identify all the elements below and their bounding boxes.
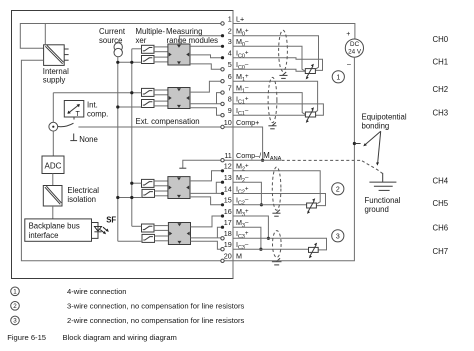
wire M rail from internal supply down to terminal 20 xyxy=(21,60,222,260)
wire G4 to terminal 18 xyxy=(191,237,223,239)
wire G1 to terminal 2 M0+ xyxy=(179,36,222,44)
legend circle 2 3-wire connection xyxy=(11,302,245,311)
functional ground symbol xyxy=(369,173,396,191)
wire terminal 17 M3- jumper to IC3- xyxy=(233,227,263,251)
equipotential bonding dashed line xyxy=(282,160,383,173)
svg-text:L+: L+ xyxy=(236,14,244,23)
SF label xyxy=(106,216,116,225)
mux switch S1 box xyxy=(142,45,168,53)
wire terminal 6 M1+ external xyxy=(233,81,318,112)
svg-text:DC: DC xyxy=(350,41,360,48)
wire terminal 13 M2- jumper to IC2- xyxy=(233,182,263,206)
wire terminal 5 IC0- external xyxy=(233,69,305,71)
legend circle 3 2-wire connection xyxy=(11,316,245,325)
wire terminal 17 jog to G4 xyxy=(217,227,222,238)
mux switch S7 box xyxy=(142,224,168,232)
wire G3 to terminal 12 xyxy=(190,171,223,181)
svg-text:20: 20 xyxy=(224,252,232,261)
cable shield ch2 xyxy=(272,167,281,210)
sensor RT1 resistor xyxy=(305,107,315,123)
cable shield ch0 xyxy=(279,30,288,71)
svg-text:Ext. compensation: Ext. compensation xyxy=(136,117,200,126)
svg-text:10: 10 xyxy=(224,118,232,127)
wire terminal 11 MANA external xyxy=(223,159,282,161)
svg-text:2: 2 xyxy=(13,303,17,310)
svg-text:ground: ground xyxy=(365,205,389,214)
wire terminal 7 M1- external xyxy=(233,93,305,115)
svg-text:Equipotential: Equipotential xyxy=(362,113,407,122)
wire G2 to terminal 9 xyxy=(190,108,223,115)
wire terminal 10 Comp+ external jumper xyxy=(223,127,265,162)
svg-text:source: source xyxy=(99,36,122,45)
svg-text:3: 3 xyxy=(228,37,232,46)
svg-text:14: 14 xyxy=(224,184,232,193)
svg-text:–: – xyxy=(347,61,351,68)
multiplexer label xyxy=(136,27,166,45)
wire v2 to S7 xyxy=(132,225,142,227)
wire terminal 3 M0- external xyxy=(233,46,305,71)
svg-text:Comp+: Comp+ xyxy=(236,118,259,127)
svg-text:12: 12 xyxy=(224,162,232,171)
wire G2 to terminal 8 xyxy=(190,103,223,105)
svg-text:16: 16 xyxy=(224,207,232,216)
svg-text:M: M xyxy=(236,252,242,261)
wire ext compensation line to terminal 10 xyxy=(78,126,222,128)
svg-text:Multiple-: Multiple- xyxy=(136,27,166,36)
svg-text:supply: supply xyxy=(43,76,66,85)
cable shield ch3 xyxy=(273,231,282,258)
svg-text:Electrical: Electrical xyxy=(67,186,99,195)
svg-text:2: 2 xyxy=(228,27,232,36)
svg-text:None: None xyxy=(79,135,98,144)
wire summer to S3 xyxy=(53,91,141,94)
shield ground ch0 xyxy=(279,72,287,78)
mux switch S3 box xyxy=(142,88,168,96)
summer junction circle xyxy=(49,122,58,131)
wire v2 to S1 xyxy=(132,48,142,50)
wire DC supply minus to terminal 20 M xyxy=(223,57,355,261)
wire terminal 8 IC1+ external loop xyxy=(233,104,323,115)
wire v1 to S6 xyxy=(116,196,142,199)
svg-text:Internal: Internal xyxy=(43,67,69,76)
wire int comp contact stub xyxy=(73,117,75,120)
svg-text:Figure 6-15: Figure 6-15 xyxy=(7,333,46,342)
wire L+ terminal 1 to internal supply xyxy=(20,24,222,49)
connection type circle 1 xyxy=(332,71,344,83)
svg-text:Block diagram and wiring diagr: Block diagram and wiring diagram xyxy=(63,333,177,342)
svg-text:2-wire connection, no compensa: 2-wire connection, no compensation for l… xyxy=(67,316,244,325)
wire G1 to terminal 4 xyxy=(190,55,223,58)
wire summer to ADC xyxy=(52,131,54,156)
terminal contact points xyxy=(221,22,224,263)
svg-text:interface: interface xyxy=(29,231,59,240)
svg-text:11: 11 xyxy=(224,151,231,160)
svg-text:bonding: bonding xyxy=(362,121,390,130)
wire terminal 2 M0+ external xyxy=(233,36,319,69)
ADC U2 box xyxy=(42,156,64,174)
module outline box xyxy=(12,11,234,279)
wire internal supply to L+ rail xyxy=(44,24,46,45)
wire G2 to terminal 6 xyxy=(190,81,223,92)
wire bus v1 from current source xyxy=(117,57,119,242)
terminal strip vertical line xyxy=(232,11,234,279)
wire terminal 18 IC3+ external loop xyxy=(233,238,327,250)
svg-text:4-wire connection: 4-wire connection xyxy=(67,287,127,296)
svg-text:6: 6 xyxy=(228,72,232,81)
measuring range module G2 box xyxy=(168,88,190,109)
channel labels CH0-CH7 xyxy=(433,35,449,256)
svg-text:4: 4 xyxy=(228,49,232,58)
none option contact xyxy=(70,134,98,144)
connection type circle 3 xyxy=(332,230,344,242)
electrical isolation label xyxy=(67,186,99,204)
svg-text:CH0: CH0 xyxy=(433,35,449,44)
legend circle 1 4-wire connection xyxy=(11,287,127,296)
wire summer to mux line xyxy=(52,93,54,123)
svg-text:comp.: comp. xyxy=(87,109,108,118)
svg-text:range modules: range modules xyxy=(167,36,219,45)
svg-text:CH1: CH1 xyxy=(433,58,449,67)
figure caption xyxy=(7,333,177,342)
wire G1 to terminal 3 xyxy=(190,45,223,47)
wire terminal 7 jog to G2 xyxy=(217,93,223,104)
wire G3 to terminal 14 xyxy=(190,192,223,194)
wire terminal 16 M3+ jumper to IC3+ xyxy=(233,216,270,240)
svg-text:T: T xyxy=(76,111,81,118)
wire terminal 15 IC2- external xyxy=(233,204,307,206)
svg-text:SF: SF xyxy=(106,216,116,225)
svg-text:1: 1 xyxy=(336,75,340,82)
int comp sensor box xyxy=(64,101,84,118)
wire terminal 13 jog to G3 xyxy=(216,182,222,193)
connection type circle 2 xyxy=(332,183,344,195)
svg-text:3: 3 xyxy=(336,234,340,241)
current source I1 xyxy=(114,43,122,57)
cable shield ch1 xyxy=(268,77,277,122)
svg-text:CH7: CH7 xyxy=(433,247,449,256)
wire v1 to S2 xyxy=(116,61,141,64)
wire terminal 11 MANA to internal common xyxy=(179,160,222,168)
sensor RT3 resistor xyxy=(309,243,319,259)
internal supply label xyxy=(43,67,69,85)
wire L+ external to DC supply xyxy=(233,24,355,40)
shield ground ch1 xyxy=(268,122,276,128)
switch wiper from summer xyxy=(58,123,74,126)
DC 24V source B1 xyxy=(345,31,363,68)
svg-text:Current: Current xyxy=(99,27,126,36)
svg-text:8: 8 xyxy=(228,95,232,104)
svg-text:+: + xyxy=(346,31,350,38)
svg-text:15: 15 xyxy=(224,196,232,205)
wire isolation to backplane xyxy=(52,206,54,219)
wire terminal 9 IC1- external xyxy=(233,114,305,116)
svg-text:CH3: CH3 xyxy=(433,108,449,117)
electrical isolation U3 box xyxy=(43,186,62,207)
svg-text:19: 19 xyxy=(224,240,232,249)
svg-text:CH5: CH5 xyxy=(433,199,449,208)
svg-text:17: 17 xyxy=(224,218,232,227)
wire G4 to terminal 16 xyxy=(191,216,223,227)
svg-text:7: 7 xyxy=(228,83,232,92)
svg-text:18: 18 xyxy=(224,229,232,238)
shield ground ch2 xyxy=(272,210,280,216)
mux switch S4 box xyxy=(142,100,168,108)
wire G4 to terminal 19 xyxy=(191,241,223,249)
svg-text:CH4: CH4 xyxy=(433,177,449,186)
wire v1 to S8 xyxy=(118,240,142,242)
measuring range module G4 box xyxy=(168,223,190,245)
terminal labels L+ M0+ M0- IC0+ IC0- M1+ M1- IC1+ IC1- Comp+ Comp-/MANA M2+ M2- IC2+ IC2- M3+ M3- IC3+ IC3- M xyxy=(236,14,282,260)
svg-text:3-wire connection, no compensa: 3-wire connection, no compensation for l… xyxy=(67,302,244,311)
terminal numbers 1-20 xyxy=(224,14,232,260)
measuring range module G3 box xyxy=(168,177,190,199)
equipotential bonding pointer arrows xyxy=(363,131,380,165)
mux switch S5 box xyxy=(142,179,168,187)
svg-text:24 V: 24 V xyxy=(348,49,362,56)
wire terminal 19 IC3- external xyxy=(233,248,309,250)
svg-text:3: 3 xyxy=(13,318,17,325)
svg-text:isolation: isolation xyxy=(67,195,96,204)
measuring range module G1 box xyxy=(168,44,190,65)
svg-text:Measuring: Measuring xyxy=(166,27,202,36)
wire v1 to S4 xyxy=(116,105,141,108)
svg-text:13: 13 xyxy=(224,173,232,182)
sensor RT2 resistor xyxy=(307,198,317,214)
wire v2 to S5 xyxy=(130,182,141,185)
equipotential bonding tap junction xyxy=(353,142,361,145)
svg-text:5: 5 xyxy=(228,60,232,69)
svg-text:CH2: CH2 xyxy=(433,85,449,94)
svg-text:ADC: ADC xyxy=(45,161,62,170)
wire ADC to isolation xyxy=(52,174,54,186)
wire G1 to terminal 5 xyxy=(190,64,223,69)
mux switch S2 box xyxy=(142,56,168,64)
functional ground label xyxy=(365,196,401,214)
SF LED D1 xyxy=(92,223,109,239)
shield ground ch3 xyxy=(272,258,282,265)
int comp label xyxy=(87,101,108,119)
mux switch S8 box xyxy=(142,234,168,242)
wire G3 to terminal 15 xyxy=(190,197,223,205)
equipotential bonding label xyxy=(362,113,407,131)
wire terminal 12 M2+ external xyxy=(233,171,320,204)
svg-text:9: 9 xyxy=(228,106,232,115)
svg-text:CH6: CH6 xyxy=(433,224,449,233)
mux switch S6 box xyxy=(142,189,168,197)
svg-text:2: 2 xyxy=(336,187,340,194)
svg-text:Backplane bus: Backplane bus xyxy=(29,222,80,231)
wire terminal 14 IC2+ external loop xyxy=(233,194,326,206)
wire terminal 4 IC0+ external loop xyxy=(233,58,323,71)
internal supply U1 box xyxy=(44,45,69,66)
svg-text:Int.: Int. xyxy=(87,101,98,110)
current source label xyxy=(99,27,126,45)
svg-text:xer: xer xyxy=(136,36,147,45)
svg-text:1: 1 xyxy=(228,14,232,23)
measuring range modules label xyxy=(166,27,218,45)
sensor RT0 resistor xyxy=(305,64,315,80)
svg-text:1: 1 xyxy=(13,289,17,296)
ext compensation label xyxy=(136,117,200,126)
backplane bus interface U4 box xyxy=(25,219,92,241)
wire bus v2 multiplexer xyxy=(131,49,133,227)
